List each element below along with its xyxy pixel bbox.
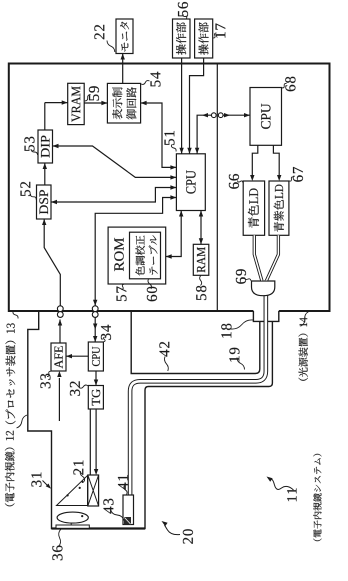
arrowhead into TG right: [94, 380, 98, 386]
wire AFE to connector: [59, 320, 61, 344]
tilde 58: [200, 276, 202, 286]
scope distal end face (thick): [52, 527, 146, 529]
label 36: [52, 546, 62, 561]
wire 54 to CPU51: [141, 103, 177, 167]
image sensor box 21: [88, 475, 99, 506]
label 32: [70, 381, 80, 395]
image sensor cross: [88, 475, 99, 506]
text DSP: [39, 190, 48, 214]
tilde 59: [85, 95, 91, 102]
text table line1: [135, 236, 144, 276]
fiber from blue LD 66 to combiner: [254, 235, 261, 280]
tilde 51: [171, 145, 176, 152]
arrowhead into CPU51 top (from 54): [170, 165, 176, 169]
label 51: [164, 131, 174, 145]
label 11: [287, 488, 296, 501]
arrowhead into ROM bottom: [166, 254, 172, 258]
label 19: [229, 348, 239, 362]
wire ROM to CPU51: [166, 211, 182, 257]
wire CPU68 to blue LD 66: [252, 145, 257, 177]
label 53: [24, 137, 34, 151]
wire VRAM to display-control 54: [84, 102, 107, 104]
CPU box 34: [88, 342, 103, 371]
combiner 69: [252, 281, 275, 296]
arrowhead into CPU34 right: [93, 336, 97, 342]
tilde 36: [59, 529, 61, 546]
arrowhead into DSP left: [42, 219, 46, 225]
label 59: [89, 86, 99, 100]
label 57: [117, 287, 127, 302]
arrow 31: [43, 481, 48, 486]
tilde 57: [122, 284, 125, 289]
tilde 33: [47, 371, 51, 376]
arrowhead up toward CPU51 on divider wire: [202, 113, 208, 117]
wire DSP to CPU51: [51, 188, 176, 203]
label 41: [118, 475, 128, 490]
illumination window 43 (dark): [124, 517, 131, 525]
arrowhead into DIP left: [43, 163, 47, 169]
text monitor: [120, 22, 129, 52]
color calibration table box 60: [130, 232, 161, 279]
wire operation-56 to CPU51: [181, 58, 183, 154]
prism ray dots: [67, 494, 69, 496]
label 42: [159, 342, 169, 357]
tilde 66: [238, 181, 243, 183]
wire 54 to monitor: [122, 54, 124, 84]
connector circle AFE column outer: [57, 312, 63, 318]
text CPU 68: [261, 104, 270, 129]
text RAM: [197, 247, 205, 272]
divider between processor 13 and light source 14: [216, 64, 218, 312]
VRAM box 59: [68, 83, 85, 124]
wire connector to CPU34: [94, 317, 96, 342]
label 58: [196, 286, 206, 300]
wire TG to image sensor (line 2): [95, 409, 97, 469]
tilde 67: [289, 177, 293, 181]
arrowhead into CPU51 right (from divider connector): [195, 148, 199, 154]
processor/light-source outer enclosure (13/14): [9, 64, 330, 312]
tilde 32: [79, 385, 88, 388]
arrowhead into CPU51 left (from RAM): [199, 211, 203, 217]
text VRAM: [72, 86, 81, 122]
label 22: [94, 25, 104, 39]
text CPU 51: [186, 170, 195, 193]
text blue-violet LD: [274, 185, 284, 232]
fiber from blue-violet LD 67 to combiner: [267, 235, 279, 280]
arrowhead into monitor: [121, 54, 125, 60]
display control circuit box 54: [107, 83, 140, 123]
label 33: [40, 374, 50, 389]
arrowhead into connector circle (AFE column): [58, 320, 62, 326]
tilde 43: [111, 510, 125, 521]
wire DIP to VRAM vertical: [45, 102, 68, 104]
wire operation-17 to CPU51: [190, 58, 204, 154]
label 67: [293, 167, 303, 182]
operation unit box 56: [173, 19, 191, 58]
text operation 17: [199, 22, 209, 54]
blue LD box 66: [243, 181, 264, 235]
tilde 19: [237, 358, 245, 370]
label 52: [20, 182, 30, 196]
wire image sensor signal to AFE: [58, 378, 60, 421]
label 17: [215, 24, 225, 38]
CPU box 68: [250, 88, 282, 146]
label 31: [31, 473, 41, 487]
DSP box 52: [37, 185, 52, 219]
connector circle AFE column inner: [57, 306, 63, 312]
prism 31: [57, 476, 88, 506]
arrowhead into CPU51 top (from connector): [170, 195, 176, 199]
tilde 69: [245, 278, 252, 281]
tilde 60: [148, 279, 152, 289]
arrowhead into DSP bottom: [51, 200, 57, 204]
tilde 56: [183, 15, 187, 19]
arrowhead into AFE bottom: [66, 354, 72, 358]
arrowhead into CPU68 top: [244, 113, 250, 117]
label 56: [178, 2, 188, 17]
connector 18: [253, 311, 278, 321]
universal cord 42 outline wall: [131, 312, 260, 374]
arrowhead into CPU51 top (from DSP): [170, 185, 176, 189]
AFE box 33: [51, 343, 66, 371]
label 18: [221, 324, 231, 338]
wire RAM to CPU51: [200, 211, 202, 245]
label 20: [183, 529, 193, 544]
arrowhead into 54: [101, 101, 107, 105]
arrowhead into connector circle (CPU column): [93, 300, 97, 306]
arrowhead into DIP bottom: [53, 144, 59, 148]
text AFE: [54, 346, 62, 368]
tilde 53: [31, 149, 38, 155]
arrowhead into image sensor: [94, 469, 98, 475]
leader arrow 11: [271, 479, 294, 491]
tilde 42: [164, 357, 168, 372]
arrowhead down after connector: [224, 113, 230, 117]
label 43: [103, 499, 113, 514]
light guide end 41: [123, 495, 134, 525]
ROM box 57: [108, 227, 166, 284]
wire TG to image sensor (line 1): [89, 409, 91, 475]
arrowhead into CPU51 right (from 17): [187, 148, 191, 154]
label 68: [285, 77, 295, 92]
tilde 22: [107, 41, 115, 53]
connector circle CPU column inner: [92, 306, 98, 312]
objective lens: [57, 512, 88, 523]
text display-control line2: [126, 87, 136, 119]
text blue LD: [248, 189, 259, 228]
wire divider connector to CPU68: [223, 114, 250, 116]
wire CPU34 to AFE: [66, 355, 88, 357]
tilde caption 14: [301, 312, 309, 326]
wire DIP to CPU51 (diagonal): [53, 146, 177, 177]
caption system name: [313, 454, 321, 541]
arrowhead into LD66: [250, 175, 254, 181]
endoscope 12 body outline: [28, 312, 273, 529]
tilde 21: [80, 471, 84, 482]
observation window 36: [56, 525, 89, 528]
tilde 18: [231, 320, 253, 329]
wire CPU51 to scope connector (CPU34 link): [95, 198, 176, 306]
arrowhead into AFE left: [57, 371, 61, 377]
tilde 17: [213, 33, 216, 38]
wire connector to DSP (AFE signal): [44, 219, 60, 306]
tilde 41: [124, 486, 127, 495]
leader arrow 20: [165, 525, 181, 535]
text TG: [92, 389, 100, 405]
tilde 54: [141, 81, 149, 85]
caption light source 14: [299, 317, 308, 381]
arrowhead into RAM right: [199, 238, 203, 244]
text operation 56: [176, 22, 186, 54]
tilde 52: [30, 194, 36, 200]
connector circle CPU column outer: [92, 312, 98, 318]
CPU box 51: [176, 154, 205, 211]
label 60: [147, 287, 157, 302]
arrowhead into CPU51 right (from 56): [179, 148, 183, 154]
tilde caption 13: [13, 311, 18, 318]
text ROM: [114, 238, 123, 271]
divider connector circle lower: [218, 113, 223, 118]
label 34: [101, 325, 111, 340]
DIP box 53: [38, 130, 53, 163]
caption endoscope 12: [5, 431, 15, 507]
TG box 32: [88, 386, 103, 410]
text table line2: [149, 235, 158, 274]
label 66: [229, 174, 239, 189]
lens mount tick: [70, 523, 72, 525]
operation unit box 17: [195, 19, 213, 58]
blue-violet LD box 67: [269, 181, 289, 235]
caption processor 13: [5, 323, 15, 424]
wire DIP to VRAM horizontal: [44, 103, 46, 130]
label 69: [236, 269, 246, 284]
arrowhead after connector toward CPU34: [93, 324, 97, 330]
tilde 34: [103, 337, 105, 342]
RAM box 58: [193, 244, 209, 275]
arrowhead into LD67: [277, 175, 281, 181]
arrowhead into CPU51 top (from DIP): [170, 175, 176, 179]
wire DSP to DIP: [44, 163, 46, 185]
wire CPU34 to TG: [95, 371, 97, 386]
light guide 19 (double line from combiner to scope tip): [130, 294, 266, 495]
text DIP: [41, 136, 50, 158]
text display-control line1: [112, 87, 122, 119]
label 21: [73, 461, 83, 475]
divider connector circle upper: [211, 113, 216, 118]
tilde 68: [282, 83, 287, 87]
label 54: [151, 72, 161, 87]
arrowhead into CPU51 left (from ROM): [179, 211, 183, 217]
arrowhead into 54 bottom: [141, 101, 147, 105]
monitor box 22: [116, 19, 133, 54]
arrowhead into VRAM: [62, 100, 68, 104]
text CPU 34: [92, 347, 100, 366]
wire CPU68 to blue-violet LD 67: [273, 145, 279, 177]
wire CPU51 to divider connector: [197, 115, 211, 154]
tilde caption 12: [17, 415, 28, 428]
